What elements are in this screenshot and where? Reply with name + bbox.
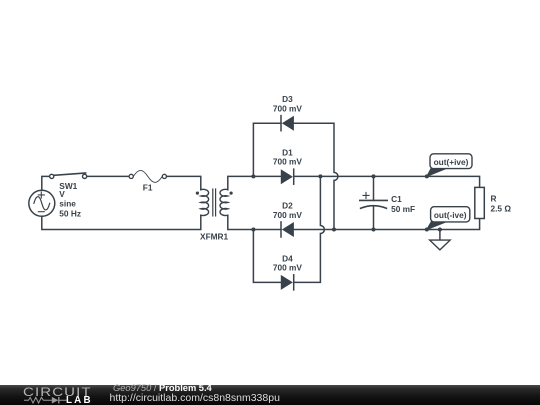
wire fuse to transformer primary: [167, 176, 201, 189]
junction node D at D3: [332, 228, 336, 232]
flag out(+ive): [427, 154, 472, 177]
wire source bottom rail to transformer primary: [42, 215, 201, 229]
junction cap top: [372, 174, 376, 178]
junction node B at D1: [318, 174, 322, 178]
voltage source V (sine 50 Hz): [29, 190, 55, 216]
junction cap bottom: [372, 228, 376, 232]
junction ground: [438, 228, 442, 232]
wire D4 cathode up to node B (with hop over node D wire): [294, 176, 324, 282]
diode D4: [281, 275, 293, 290]
footer logo LAB: [66, 396, 93, 405]
junction node A riser: [251, 174, 255, 178]
footer bar: [0, 385, 540, 405]
svg-text:out(-ive): out(-ive): [434, 210, 467, 220]
flag out(-ive): [427, 207, 470, 230]
svg-text:sine: sine: [59, 199, 76, 209]
wire D2 anode to right (node D, -): [293, 219, 479, 230]
svg-text:700 mV: 700 mV: [273, 104, 303, 114]
junction node C riser: [251, 228, 255, 232]
junction out-: [425, 228, 429, 232]
wire source top to switch: [42, 176, 50, 190]
capacitor C1: [360, 176, 387, 229]
svg-text:V: V: [59, 189, 65, 199]
footer logo CIRCUIT: [23, 386, 92, 398]
svg-text:50 Hz: 50 Hz: [59, 208, 81, 218]
wire riser node C to D4: [253, 230, 281, 283]
wire riser node A to D3: [253, 123, 281, 176]
fuse F1: [129, 170, 166, 182]
svg-text:F1: F1: [143, 183, 153, 193]
svg-text:700 mV: 700 mV: [273, 157, 303, 167]
diode D1: [281, 169, 293, 184]
ground: [430, 230, 450, 250]
wire secondary bottom row (node C): [228, 215, 281, 229]
resistor R: [475, 187, 485, 218]
footer logo wire glyph: resistor zigzag and diode: [23, 394, 69, 405]
svg-text:2.5 Ω: 2.5 Ω: [491, 203, 512, 213]
wire switch to fuse: [87, 175, 129, 177]
wire secondary top row (node A): [228, 176, 281, 189]
wire D3 anode down to node D (with hop over node B wire): [293, 123, 338, 229]
diode D2: [281, 222, 293, 237]
switch SW1: [50, 173, 87, 178]
diode D3: [281, 116, 293, 131]
svg-text:50 mF: 50 mF: [391, 204, 415, 214]
svg-text:R: R: [491, 194, 497, 204]
footer url line: [110, 392, 280, 404]
svg-text:700 mV: 700 mV: [273, 210, 303, 220]
footer title line: [113, 383, 212, 393]
svg-text:out(+ive): out(+ive): [434, 157, 469, 167]
svg-text:700 mV: 700 mV: [273, 263, 303, 273]
svg-text:C1: C1: [391, 194, 402, 204]
svg-text:XFMR1: XFMR1: [200, 232, 229, 242]
wire D1 cathode to right (node B, +): [294, 176, 479, 187]
transformer XFMR1: [196, 189, 233, 216]
junction out+: [425, 174, 429, 178]
